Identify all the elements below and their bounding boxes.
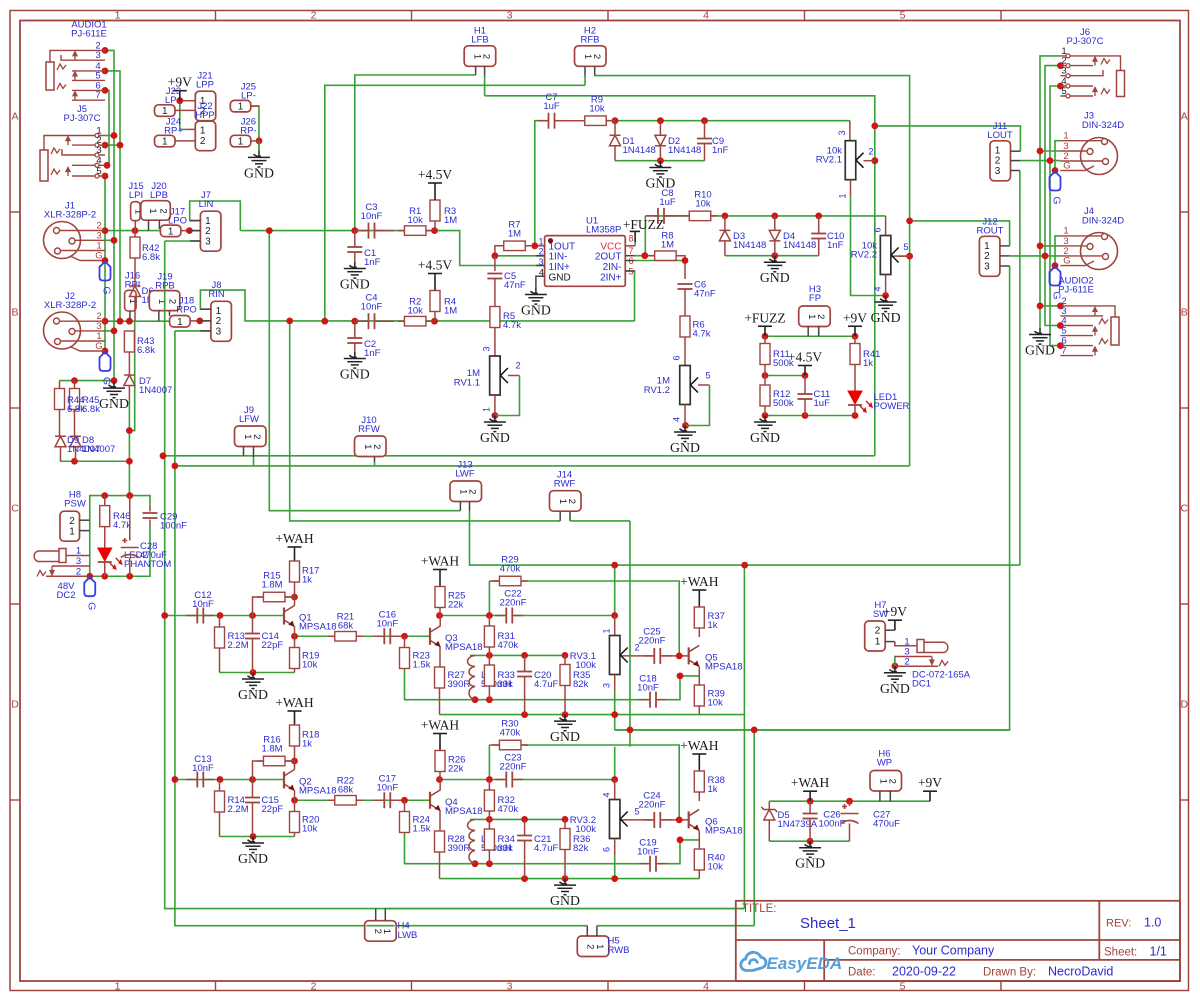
resistor R3 1M	[430, 200, 440, 221]
svg-text:FP: FP	[809, 293, 821, 304]
svg-text:2.2M: 2.2M	[228, 640, 249, 651]
svg-text:1N4007: 1N4007	[82, 444, 115, 455]
wire crossing J19	[164, 291, 166, 311]
resistor R43	[124, 331, 134, 352]
wire RV1.1 wiper loop	[508, 375, 520, 377]
resistor R16 1.8M	[253, 761, 264, 780]
resistor R27 390R	[439, 647, 441, 667]
svg-text:1: 1	[238, 137, 244, 148]
wire ch1 gnd row to LWB riser	[699, 714, 744, 716]
svg-text:1.8M: 1.8M	[261, 580, 282, 591]
capacitor C27 470uF	[849, 801, 851, 806]
wire C22 right to pot	[514, 615, 614, 617]
wire J3 pin3	[1040, 150, 1060, 152]
resistor R30 470k	[489, 744, 500, 746]
G flag J2	[100, 352, 111, 371]
GND diodes	[649, 161, 671, 177]
svg-text:LWB: LWB	[398, 930, 418, 941]
wire R13 C14 GND row	[220, 672, 295, 674]
capacitor C5 47nF	[494, 256, 496, 271]
wire J5 pin2	[105, 144, 120, 146]
svg-text:G: G	[85, 602, 97, 610]
wire RV3.1 pin1 jog	[614, 565, 616, 615]
resistor R36 82k	[564, 819, 566, 828]
svg-text:3: 3	[507, 981, 513, 993]
svg-text:2: 2	[371, 444, 382, 449]
wire pot wiper to C25	[619, 819, 653, 821]
resistor R40 10k	[698, 831, 700, 849]
wire RFW bus	[175, 465, 910, 467]
svg-text:68k: 68k	[338, 785, 354, 796]
svg-text:1M: 1M	[444, 215, 457, 226]
capacitor C17 10nF	[384, 792, 390, 808]
wire right ground bus x1040	[1040, 56, 1060, 328]
svg-text:A: A	[11, 111, 18, 123]
wire to U1 pin5	[625, 271, 634, 321]
svg-text:G: G	[95, 341, 102, 352]
wire J7.3 down to LFW bus	[165, 241, 745, 909]
svg-text:6.8k: 6.8k	[137, 345, 155, 356]
svg-text:2: 2	[515, 361, 520, 371]
svg-text:470uF: 470uF	[873, 819, 900, 830]
svg-text:1nF: 1nF	[827, 240, 844, 251]
resistor R8 1M	[648, 255, 684, 257]
svg-text:MPSA18: MPSA18	[299, 622, 337, 633]
wire H1.2 to RV2.1/J11	[485, 96, 875, 161]
wire R12 C11 LED1 bottom row	[765, 415, 855, 417]
svg-text:1M: 1M	[508, 229, 521, 240]
svg-text:NecroDavid: NecroDavid	[1048, 965, 1113, 979]
svg-text:2: 2	[167, 299, 178, 304]
capacitor C25 220nF	[654, 648, 660, 664]
svg-text:4.7k: 4.7k	[693, 329, 711, 340]
wire AUDIO2 pin2	[1040, 305, 1060, 307]
capacitor C19 10nF	[650, 856, 656, 872]
svg-text:C: C	[11, 503, 19, 515]
svg-text:+WAH: +WAH	[791, 775, 830, 790]
resistor R34 33k	[488, 819, 490, 829]
svg-text:+WAH: +WAH	[680, 738, 719, 753]
capacitor C13 10nF	[197, 772, 203, 788]
svg-text:1M: 1M	[444, 306, 457, 317]
wire U1 pin1 stub	[535, 245, 545, 247]
svg-text:GND: GND	[480, 430, 510, 445]
GND D3 D4	[764, 256, 786, 272]
connector DC2 barrel jack	[59, 549, 66, 563]
svg-text:LWF: LWF	[455, 469, 475, 480]
svg-text:RPO: RPO	[176, 305, 197, 316]
svg-text:10nF: 10nF	[376, 619, 398, 630]
svg-text:+WAH: +WAH	[680, 574, 719, 589]
svg-text:+4.5V: +4.5V	[418, 167, 452, 182]
svg-text:4: 4	[703, 981, 709, 993]
svg-text:Sheet:: Sheet:	[1104, 947, 1137, 959]
svg-text:68k: 68k	[338, 621, 354, 632]
GND R12	[754, 416, 776, 432]
svg-text:1N4739A: 1N4739A	[778, 819, 818, 830]
wire RFW bus right end	[909, 256, 911, 466]
DC2 pin3	[52, 565, 90, 567]
DC1 pin2	[895, 665, 938, 667]
svg-text:MPSA18: MPSA18	[445, 642, 483, 653]
wire C18 elbow to emitter	[658, 676, 699, 700]
svg-text:1: 1	[875, 637, 881, 648]
svg-text:PJ-611E: PJ-611E	[1058, 285, 1094, 296]
svg-text:G: G	[1051, 196, 1063, 204]
GND RV2.2	[875, 296, 897, 312]
svg-text:4: 4	[672, 417, 682, 422]
svg-text:6: 6	[672, 355, 682, 360]
G flag J1	[102, 257, 109, 264]
wire H1.1 feedback bus	[355, 75, 476, 231]
resistor R7 1M	[497, 245, 533, 247]
capacitor C7 1uF	[540, 120, 549, 122]
resistor R2 10k	[397, 320, 433, 322]
wire wah supply row	[769, 800, 930, 802]
transistor Q1 MPSA18	[294, 597, 296, 606]
svg-text:G: G	[101, 377, 113, 385]
resistor R4 1M	[430, 291, 440, 312]
wire J1 pin2 row	[105, 230, 170, 232]
svg-text:GND: GND	[1025, 343, 1055, 358]
wire PSW loop	[90, 496, 150, 531]
wire J18 out to J8.2	[190, 320, 211, 322]
svg-text:+WAH: +WAH	[275, 531, 314, 546]
wire H2.1 feedback bus	[325, 85, 585, 321]
svg-text:47nF: 47nF	[694, 289, 716, 300]
capacitor C2 1nF	[354, 321, 356, 338]
svg-text:Drawn By:: Drawn By:	[983, 967, 1036, 979]
resistor R44	[59, 381, 61, 389]
frame tick	[10, 603, 20, 605]
svg-text:10k: 10k	[408, 215, 424, 226]
svg-text:REV:: REV:	[1106, 918, 1131, 930]
capacitor C4 10nF	[355, 320, 369, 322]
J6 jack symbol	[1117, 71, 1125, 97]
svg-text:22k: 22k	[448, 600, 464, 611]
svg-text:GND: GND	[244, 165, 274, 180]
svg-text:3: 3	[507, 10, 513, 22]
svg-text:GND: GND	[670, 440, 700, 455]
diode D8 1N4007	[70, 436, 81, 447]
svg-text:10k: 10k	[695, 199, 711, 210]
resistor R14 2.2M	[219, 780, 221, 792]
svg-text:1k: 1k	[708, 784, 718, 795]
GND wah mid	[554, 879, 576, 895]
wire J12 pin2 to J4	[1010, 255, 1061, 257]
diode D1 1N4148	[614, 121, 616, 136]
svg-text:LOUT: LOUT	[987, 130, 1013, 141]
svg-text:10nF: 10nF	[637, 847, 659, 858]
diode D3 1N4148	[724, 216, 726, 231]
svg-text:1: 1	[177, 317, 183, 328]
svg-text:470k: 470k	[500, 728, 521, 739]
svg-text:1: 1	[538, 237, 543, 247]
GND wah input	[242, 837, 264, 853]
junction dots	[102, 47, 109, 54]
svg-text:1uF: 1uF	[543, 101, 560, 112]
wire J14.2 down	[629, 521, 631, 747]
svg-text:+9V: +9V	[883, 604, 907, 619]
transistor Q3 MPSA18	[430, 626, 441, 647]
svg-text:Date:: Date:	[848, 967, 876, 979]
svg-text:2.2M: 2.2M	[228, 804, 249, 815]
wire RV2.2 wiper to J12 net	[909, 221, 911, 256]
wire FUZZ H3 9V row	[765, 335, 855, 337]
svg-text:10k: 10k	[708, 698, 724, 709]
wire RV2.1 wiper down	[874, 161, 876, 456]
wire L-in branch down x269.3	[269, 231, 460, 511]
svg-text:1.5k: 1.5k	[413, 660, 431, 671]
wire pot wiper to C25	[619, 655, 653, 657]
connector DC1 DC-072-165A barrel jack	[895, 642, 918, 646]
svg-text:1: 1	[69, 527, 75, 538]
svg-text:3: 3	[995, 166, 1001, 177]
svg-text:100nF: 100nF	[160, 521, 187, 532]
svg-text:8: 8	[629, 234, 634, 244]
svg-text:1: 1	[127, 299, 138, 304]
svg-text:1: 1	[594, 944, 605, 949]
svg-text:B: B	[1181, 307, 1188, 319]
svg-text:G: G	[101, 286, 113, 294]
svg-text:1uF: 1uF	[814, 398, 831, 409]
svg-text:GND: GND	[760, 270, 790, 285]
connector H4 LWB	[365, 921, 397, 942]
resistor R26 22k	[435, 751, 445, 772]
wire J5.5 bus x105	[104, 176, 106, 351]
svg-text:RV1.1: RV1.1	[454, 378, 480, 389]
svg-text:+4.5V: +4.5V	[418, 258, 452, 273]
resistor R20 10k	[294, 800, 296, 811]
svg-text:2: 2	[815, 314, 826, 319]
svg-text:6: 6	[873, 227, 883, 232]
resistor R19 10k	[294, 636, 296, 647]
DC1 pin3	[894, 656, 896, 666]
svg-text:22pF: 22pF	[262, 804, 284, 815]
resistor R33 33k	[488, 655, 490, 665]
svg-text:10k: 10k	[708, 862, 724, 873]
svg-text:22pF: 22pF	[262, 640, 284, 651]
svg-text:1N4148: 1N4148	[623, 145, 656, 156]
svg-text:2: 2	[591, 54, 602, 59]
svg-text:1: 1	[76, 546, 81, 557]
J5 jack symbol	[40, 150, 48, 181]
GND wah mid	[554, 715, 576, 731]
svg-text:1.5k: 1.5k	[413, 824, 431, 835]
svg-text:4: 4	[873, 286, 883, 291]
frame tick	[10, 211, 20, 213]
svg-text:GND: GND	[795, 856, 825, 871]
capacitor C8 1uF	[645, 215, 658, 217]
resistor R15 1.8M	[253, 597, 264, 616]
connector H5 RWB	[577, 936, 609, 957]
svg-text:+WAH: +WAH	[275, 695, 314, 710]
svg-text:POWER: POWER	[874, 401, 910, 412]
wire U1 pin2 node	[495, 255, 544, 257]
wire C8 left to U1 pin7	[644, 216, 646, 256]
wire C18 elbow to emitter	[658, 840, 699, 864]
capacitor C11 1uF	[804, 376, 806, 395]
wire J5 pin4	[105, 164, 109, 166]
wire RV3.1 pin3 to bottom bus	[614, 691, 616, 730]
svg-text:4.7k: 4.7k	[113, 520, 131, 531]
wire R7 left elbow	[495, 246, 505, 256]
svg-text:WP: WP	[877, 758, 892, 769]
wire bottom bus y730 right	[615, 729, 1010, 731]
svg-text:GND: GND	[871, 310, 901, 325]
svg-text:82k: 82k	[573, 679, 589, 690]
svg-text:GND: GND	[750, 430, 780, 445]
svg-text:DC1: DC1	[912, 679, 931, 690]
wire J8.1 loop	[200, 290, 634, 321]
wire J11 pin2 to J3	[1020, 160, 1060, 162]
svg-text:1.8M: 1.8M	[261, 744, 282, 755]
svg-text:MPSA18: MPSA18	[705, 826, 743, 837]
svg-text:82k: 82k	[573, 843, 589, 854]
svg-text:DIN-324D: DIN-324D	[1082, 120, 1124, 131]
wire U1 pin7 to R8	[635, 255, 655, 257]
svg-text:10nF: 10nF	[637, 683, 659, 694]
svg-text:Sheet_1: Sheet_1	[800, 915, 856, 932]
resistor R46	[104, 496, 106, 506]
svg-text:1k: 1k	[302, 739, 312, 750]
svg-text:HPP: HPP	[195, 110, 215, 121]
svg-text:1: 1	[381, 929, 392, 934]
wire J19.2 to J8.3	[175, 330, 211, 332]
title block	[736, 901, 1180, 981]
svg-text:GND: GND	[340, 367, 370, 382]
U1 pin stubs	[536, 255, 545, 257]
resistor R45	[74, 381, 76, 389]
wire RV1.2 wiper loop	[698, 384, 710, 386]
svg-text:6.8k: 6.8k	[82, 404, 100, 415]
GND wah input	[242, 673, 264, 689]
svg-text:10k: 10k	[302, 660, 318, 671]
capacitor C1 1nF	[354, 231, 356, 247]
G flag J3	[1050, 172, 1061, 191]
wire gnd row	[440, 878, 700, 880]
svg-text:RIN: RIN	[208, 289, 225, 300]
svg-text:GND: GND	[238, 851, 268, 866]
svg-text:Company:: Company:	[848, 946, 900, 958]
wire J17 out to J7.2	[181, 230, 201, 232]
wire AUDIO1.6 bus x109	[105, 90, 109, 165]
LED2 PHANTOM	[104, 527, 106, 548]
svg-text:1IN+: 1IN+	[549, 262, 571, 273]
wire wah supply bottom row	[769, 840, 849, 842]
svg-text:7: 7	[629, 246, 634, 256]
svg-text:2: 2	[69, 516, 75, 527]
svg-text:5: 5	[705, 371, 710, 381]
svg-text:4: 4	[703, 10, 709, 22]
resistor R32 470k	[488, 780, 490, 791]
svg-text:2: 2	[481, 54, 492, 59]
wire RV3.2 pin4 jog	[614, 747, 616, 780]
capacitor C14 22pF	[252, 616, 254, 634]
svg-text:2: 2	[887, 779, 898, 784]
wire J12 pin1 feed	[910, 221, 1010, 246]
svg-text:1/1: 1/1	[1150, 945, 1167, 959]
svg-text:LM358P: LM358P	[586, 225, 621, 236]
resistor R10 10k	[682, 215, 718, 217]
resistor R1 10k	[397, 230, 433, 232]
EasyEDA logo	[741, 952, 766, 970]
frame tick	[10, 407, 20, 409]
svg-text:1k: 1k	[863, 358, 873, 369]
svg-text:2: 2	[566, 499, 577, 504]
svg-text:RWF: RWF	[554, 479, 576, 490]
wire J4 pin3	[1040, 245, 1060, 247]
svg-text:RWB: RWB	[608, 945, 630, 956]
svg-text:1: 1	[162, 137, 168, 148]
GND C2	[344, 352, 366, 368]
svg-text:2020-09-22: 2020-09-22	[892, 965, 956, 979]
svg-text:+9V: +9V	[843, 310, 867, 325]
wire J8.3 down to RFW bus	[175, 331, 376, 926]
wire J4 pin1 to G	[1055, 236, 1060, 266]
svg-text:1nF: 1nF	[712, 145, 729, 156]
svg-text:5: 5	[900, 10, 906, 22]
svg-text:1N4148: 1N4148	[668, 145, 701, 156]
svg-text:470k: 470k	[500, 564, 521, 575]
resistor R13 2.2M	[219, 616, 221, 628]
transistor Q5 MPSA18	[689, 645, 700, 666]
resistor R38 1k	[694, 771, 704, 792]
svg-text:10k: 10k	[589, 104, 605, 115]
resistor R12 500k	[764, 376, 766, 386]
wire RWB bus right	[597, 925, 754, 927]
capacitor C24 220nF	[654, 812, 660, 828]
wire R1 to U1 pin3	[435, 231, 544, 266]
AUDIO2 jack symbol	[1111, 317, 1119, 345]
wire LFW bus	[163, 455, 875, 457]
svg-text:4.7k: 4.7k	[503, 320, 521, 331]
capacitor C21 4.7uF	[524, 819, 526, 835]
svg-text:2IN+: 2IN+	[600, 272, 622, 283]
wire J20.2 to J7.3	[165, 240, 201, 242]
svg-text:1nF: 1nF	[364, 257, 381, 268]
wire D3 D4 C10 bottom row	[725, 255, 819, 257]
svg-text:GND: GND	[99, 396, 129, 411]
svg-text:1: 1	[200, 126, 206, 137]
svg-text:+WAH: +WAH	[421, 554, 460, 569]
diode D6 1N4007	[134, 258, 136, 286]
svg-text:GND: GND	[238, 687, 268, 702]
wire C25 to Q5 base	[662, 655, 688, 657]
wire D1 D2 C9 top row	[607, 120, 850, 122]
wire C7 left to U1 pin1	[535, 121, 540, 246]
svg-text:220nF: 220nF	[639, 800, 666, 811]
capacitor C15 22pF	[252, 780, 254, 798]
GND RV1.1	[484, 416, 506, 432]
svg-text:1k: 1k	[708, 620, 718, 631]
wire sleeve gnd	[105, 380, 114, 382]
svg-text:RV2.1: RV2.1	[816, 155, 842, 166]
svg-text:10nF: 10nF	[192, 763, 214, 774]
svg-text:MPSA18: MPSA18	[705, 662, 743, 673]
wire R23 bottom run	[405, 669, 649, 700]
resistor R28 390R	[439, 811, 441, 831]
svg-text:1: 1	[482, 407, 492, 412]
svg-text:ROUT: ROUT	[977, 226, 1004, 237]
svg-text:RFB: RFB	[581, 35, 600, 46]
capacitor C23 220nF	[506, 772, 512, 788]
svg-text:6: 6	[602, 847, 612, 852]
wire R21 to C16 to Q base	[357, 635, 431, 637]
svg-text:33k: 33k	[498, 679, 514, 690]
svg-text:2: 2	[904, 656, 909, 667]
svg-text:G: G	[1063, 256, 1070, 267]
